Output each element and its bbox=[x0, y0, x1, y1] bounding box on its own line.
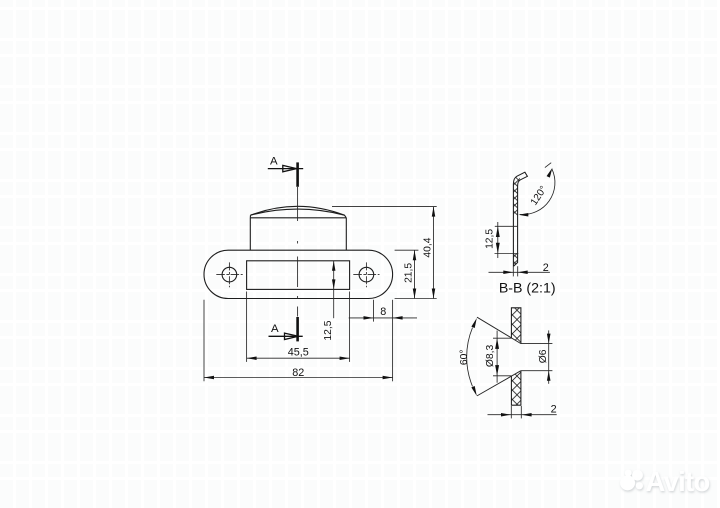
dimension 12,5 (slot height) bbox=[333, 261, 335, 318]
svg-text:8: 8 bbox=[380, 306, 386, 318]
B-B strip hatching upper bbox=[511, 174, 520, 216]
svg-text:B-B (2:1): B-B (2:1) bbox=[499, 280, 556, 296]
svg-text:Ø6: Ø6 bbox=[538, 349, 549, 363]
hole section hatching upper bbox=[511, 308, 521, 344]
centerline hole left horizontal bbox=[216, 274, 242, 276]
svg-text:Avito: Avito bbox=[646, 466, 710, 497]
hole right bbox=[359, 267, 374, 282]
60 arrow top bbox=[471, 318, 476, 328]
svg-text:A: A bbox=[271, 323, 279, 335]
dimension 40,4 bbox=[332, 207, 437, 299]
section trace thick dash bottom bbox=[296, 317, 299, 341]
svg-text:Ø8,3: Ø8,3 bbox=[485, 345, 496, 368]
svg-text:A: A bbox=[270, 155, 278, 167]
svg-text:40,4: 40,4 bbox=[422, 237, 433, 257]
centerline hole right vertical bbox=[365, 262, 367, 287]
boss dome outer arc bbox=[251, 206, 347, 218]
svg-text:21,5: 21,5 bbox=[404, 263, 415, 283]
dimension 12,5 (B-B) bbox=[495, 222, 519, 258]
boss dome inner arc bbox=[250, 209, 344, 218]
dimension 2 (B-B) bbox=[489, 266, 550, 276]
hole left bbox=[222, 267, 237, 282]
section line A-A centerline bbox=[297, 187, 299, 317]
slot rectangle bbox=[247, 261, 350, 290]
dimension 82 bbox=[204, 300, 393, 382]
centerline hole left vertical bbox=[228, 262, 230, 287]
dimension 21,5 bbox=[395, 250, 419, 298]
120 arrow bottom bbox=[518, 213, 528, 217]
120 degree arc bbox=[520, 169, 555, 215]
svg-text:82: 82 bbox=[292, 367, 304, 379]
dimension Ø6 bbox=[521, 330, 553, 383]
Avito watermark bbox=[612, 462, 720, 502]
centerline hole right horizontal bbox=[353, 274, 379, 276]
section trace thick dash top bbox=[296, 162, 299, 186]
boss left side bbox=[249, 218, 251, 250]
120 arrow top bbox=[547, 168, 553, 178]
svg-text:45,5: 45,5 bbox=[288, 347, 309, 359]
B-B strip hatching lower bbox=[511, 254, 520, 267]
dimension 2 (hole section) bbox=[488, 406, 557, 418]
plate outline (stadium shape, front view) bbox=[204, 250, 393, 298]
svg-text:12,5: 12,5 bbox=[484, 229, 495, 249]
dimension Ø8,3 bbox=[493, 331, 511, 383]
60 degree arc bbox=[467, 328, 473, 387]
boss base line bbox=[250, 217, 346, 219]
countersink line upper bbox=[477, 317, 521, 343]
section arrow A bottom bbox=[269, 333, 303, 339]
120 degree extension line bbox=[545, 163, 551, 168]
hole section hatching lower bbox=[511, 371, 521, 406]
hole section outline lower bbox=[511, 371, 521, 406]
svg-text:2: 2 bbox=[543, 262, 549, 274]
60 arrow bottom bbox=[471, 386, 476, 396]
hole section outline upper bbox=[511, 308, 521, 344]
svg-text:60°: 60° bbox=[459, 350, 470, 366]
section arrow A top bbox=[268, 165, 303, 171]
B-B strip outline bbox=[513, 172, 527, 266]
dimension 8 bbox=[349, 300, 417, 322]
dimension 45,5 bbox=[247, 292, 350, 362]
svg-text:12,5: 12,5 bbox=[323, 320, 334, 340]
boss right side bbox=[345, 218, 347, 250]
countersink line lower bbox=[477, 371, 521, 396]
svg-text:2: 2 bbox=[551, 404, 557, 416]
